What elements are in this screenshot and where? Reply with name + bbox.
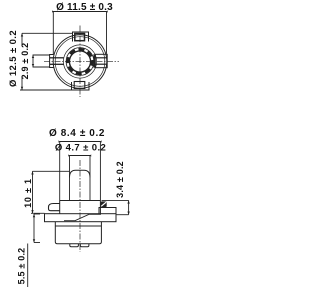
svg-text:Ø 8.4 ± 0.2: Ø 8.4 ± 0.2	[49, 128, 105, 139]
svg-text:5.5 ± 0.2: 5.5 ± 0.2	[17, 248, 27, 285]
svg-text:10 ± 1: 10 ± 1	[23, 178, 33, 208]
svg-text:2.9 ± 0.2: 2.9 ± 0.2	[20, 43, 30, 80]
svg-text:Ø 4.7 ± 0.2: Ø 4.7 ± 0.2	[55, 143, 106, 154]
svg-text:3.4 ± 0.2: 3.4 ± 0.2	[115, 161, 125, 198]
svg-text:Ø 12.5 ± 0.2: Ø 12.5 ± 0.2	[8, 30, 19, 87]
svg-text:Ø 11.5 ± 0.3: Ø 11.5 ± 0.3	[56, 2, 113, 13]
